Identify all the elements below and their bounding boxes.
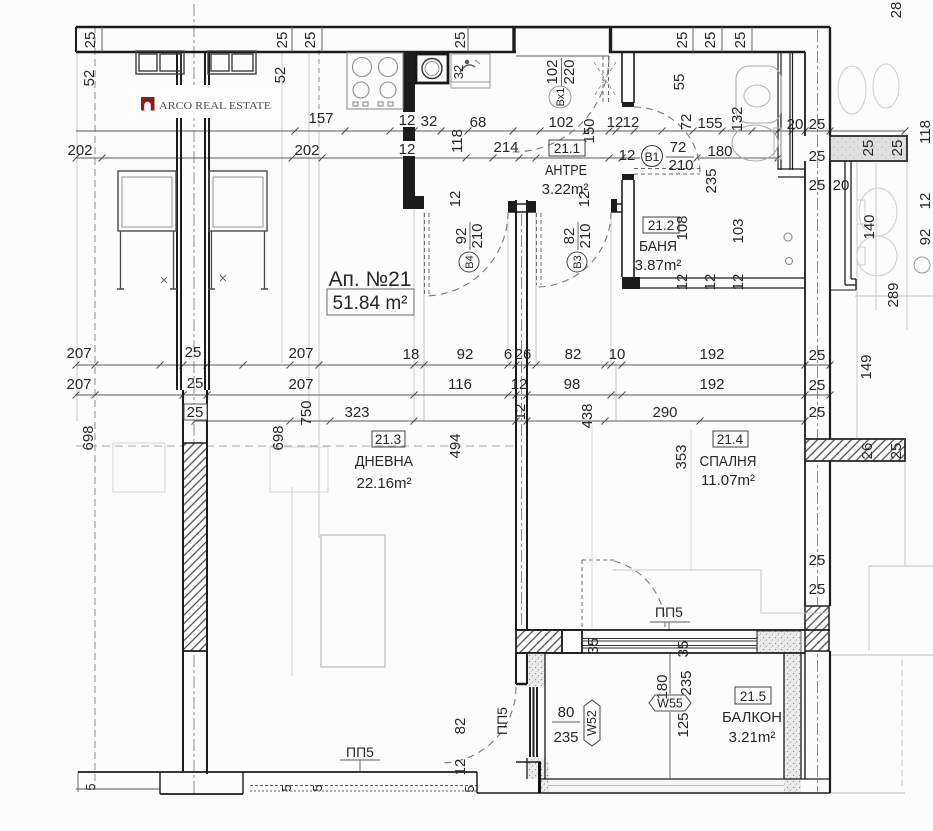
- svg-text:25: 25: [302, 32, 319, 49]
- svg-text:149: 149: [858, 354, 875, 379]
- svg-text:25: 25: [187, 375, 204, 392]
- svg-text:210: 210: [577, 223, 594, 248]
- svg-text:207: 207: [66, 376, 91, 393]
- svg-text:116: 116: [448, 376, 472, 393]
- svg-text:12: 12: [730, 274, 747, 291]
- svg-text:18: 18: [403, 346, 420, 363]
- svg-text:12: 12: [607, 114, 624, 131]
- svg-text:92: 92: [917, 229, 933, 246]
- svg-text:21.1: 21.1: [554, 141, 580, 156]
- svg-text:25: 25: [809, 116, 826, 133]
- svg-text:102: 102: [548, 114, 573, 131]
- svg-text:25: 25: [452, 32, 469, 49]
- svg-text:10: 10: [609, 346, 626, 363]
- svg-text:6: 6: [504, 346, 512, 363]
- svg-text:72: 72: [678, 114, 695, 131]
- svg-text:51.84 m²: 51.84 m²: [333, 293, 408, 314]
- svg-text:108: 108: [674, 215, 691, 240]
- svg-text:192: 192: [699, 346, 724, 363]
- svg-text:98: 98: [564, 376, 581, 393]
- svg-text:25: 25: [732, 32, 749, 49]
- svg-text:21.3: 21.3: [375, 432, 401, 447]
- svg-text:25: 25: [860, 140, 877, 157]
- svg-text:20: 20: [787, 116, 804, 133]
- svg-text:132: 132: [729, 106, 746, 131]
- svg-text:235: 235: [703, 168, 720, 193]
- svg-text:25: 25: [809, 404, 826, 421]
- svg-text:Вх1: Вх1: [555, 88, 567, 107]
- svg-text:12: 12: [512, 404, 529, 421]
- svg-text:22.16m²: 22.16m²: [356, 475, 411, 492]
- svg-text:25: 25: [889, 140, 906, 157]
- svg-text:25: 25: [82, 32, 99, 49]
- svg-text:235: 235: [553, 729, 578, 746]
- svg-text:В1: В1: [645, 150, 660, 164]
- svg-text:12: 12: [623, 114, 640, 131]
- svg-text:210: 210: [668, 157, 693, 174]
- svg-text:25: 25: [809, 552, 826, 569]
- svg-text:3.21m²: 3.21m²: [729, 729, 776, 746]
- svg-text:21.2: 21.2: [648, 218, 674, 233]
- svg-text:21.5: 21.5: [740, 689, 766, 704]
- svg-text:55: 55: [671, 74, 688, 91]
- svg-text:35: 35: [585, 638, 602, 655]
- svg-text:438: 438: [579, 403, 596, 428]
- svg-text:25: 25: [809, 377, 826, 394]
- svg-text:5: 5: [279, 784, 294, 791]
- svg-text:В4: В4: [464, 255, 476, 268]
- svg-text:207: 207: [288, 376, 313, 393]
- svg-text:102: 102: [544, 59, 561, 84]
- svg-text:698: 698: [270, 425, 287, 450]
- svg-text:25: 25: [809, 581, 826, 598]
- svg-text:494: 494: [447, 433, 464, 458]
- svg-text:118: 118: [449, 129, 466, 153]
- svg-text:52: 52: [272, 67, 289, 84]
- svg-text:207: 207: [66, 345, 91, 362]
- svg-text:5: 5: [462, 785, 477, 792]
- svg-text:25: 25: [809, 177, 826, 194]
- svg-text:192: 192: [699, 376, 724, 393]
- svg-text:202: 202: [294, 142, 319, 159]
- svg-text:12: 12: [447, 191, 464, 208]
- svg-text:80: 80: [558, 704, 575, 721]
- svg-text:28: 28: [888, 2, 905, 19]
- svg-text:ПП5: ПП5: [494, 707, 510, 735]
- svg-text:353: 353: [673, 444, 690, 469]
- svg-text:5: 5: [83, 783, 98, 790]
- svg-text:290: 290: [652, 404, 677, 421]
- svg-text:20: 20: [833, 177, 850, 194]
- svg-text:52: 52: [81, 70, 98, 87]
- svg-text:140: 140: [861, 214, 878, 239]
- svg-text:26: 26: [859, 443, 876, 460]
- svg-text:ПП5: ПП5: [346, 744, 374, 760]
- svg-text:35: 35: [675, 641, 692, 658]
- svg-text:103: 103: [730, 218, 747, 243]
- svg-text:72: 72: [670, 139, 687, 156]
- svg-text:3.22m²: 3.22m²: [542, 181, 589, 198]
- svg-text:750: 750: [298, 400, 315, 425]
- svg-text:12: 12: [619, 147, 636, 164]
- svg-text:СПАЛНЯ: СПАЛНЯ: [700, 454, 757, 470]
- svg-text:W55: W55: [657, 697, 683, 711]
- svg-text:ARCO REAL ESTATE: ARCO REAL ESTATE: [159, 101, 271, 112]
- svg-text:12: 12: [399, 141, 416, 158]
- svg-text:12: 12: [399, 112, 416, 129]
- svg-text:180: 180: [707, 143, 732, 160]
- svg-text:82: 82: [561, 228, 578, 245]
- svg-text:ПП5: ПП5: [655, 604, 683, 620]
- svg-text:25: 25: [809, 148, 826, 165]
- svg-text:82: 82: [565, 346, 582, 363]
- svg-text:32: 32: [451, 65, 466, 79]
- svg-text:В3: В3: [572, 255, 584, 268]
- svg-text:5: 5: [310, 784, 325, 791]
- svg-text:25: 25: [187, 404, 204, 421]
- svg-text:125: 125: [675, 712, 692, 737]
- svg-text:12: 12: [674, 274, 691, 291]
- svg-text:323: 323: [344, 404, 369, 421]
- svg-text:W52: W52: [585, 710, 599, 736]
- svg-text:11.07m²: 11.07m²: [701, 472, 755, 489]
- svg-text:25: 25: [674, 32, 691, 49]
- svg-text:92: 92: [457, 346, 474, 363]
- svg-text:БАНЯ: БАНЯ: [639, 239, 677, 255]
- svg-text:Ап. №21: Ап. №21: [329, 268, 412, 291]
- svg-text:220: 220: [561, 59, 578, 84]
- svg-text:25: 25: [185, 344, 202, 361]
- svg-text:698: 698: [80, 425, 97, 450]
- svg-text:92: 92: [453, 228, 470, 245]
- svg-text:26: 26: [515, 346, 532, 363]
- svg-text:12: 12: [917, 193, 933, 210]
- svg-text:25: 25: [888, 443, 905, 460]
- svg-text:32: 32: [421, 113, 438, 130]
- svg-text:289: 289: [885, 282, 902, 307]
- svg-text:25: 25: [702, 32, 719, 49]
- svg-text:68: 68: [470, 114, 487, 131]
- svg-text:235: 235: [678, 670, 695, 695]
- svg-text:25: 25: [809, 347, 826, 364]
- svg-text:12: 12: [702, 274, 719, 291]
- svg-text:155: 155: [697, 115, 722, 132]
- svg-text:157: 157: [308, 110, 333, 127]
- svg-text:12: 12: [511, 376, 528, 393]
- svg-text:207: 207: [288, 345, 313, 362]
- svg-text:118: 118: [917, 120, 933, 144]
- svg-text:210: 210: [469, 223, 486, 248]
- svg-text:12: 12: [452, 759, 469, 776]
- svg-text:ДНЕВНА: ДНЕВНА: [355, 454, 413, 470]
- svg-text:82: 82: [452, 718, 469, 735]
- svg-text:25: 25: [274, 32, 291, 49]
- svg-text:АНТРЕ: АНТРЕ: [545, 163, 587, 179]
- svg-text:214: 214: [493, 139, 518, 156]
- svg-text:202: 202: [67, 142, 92, 159]
- svg-text:БАЛКОН: БАЛКОН: [722, 710, 782, 726]
- svg-text:3.87m²: 3.87m²: [635, 257, 682, 274]
- svg-text:21.4: 21.4: [717, 432, 744, 447]
